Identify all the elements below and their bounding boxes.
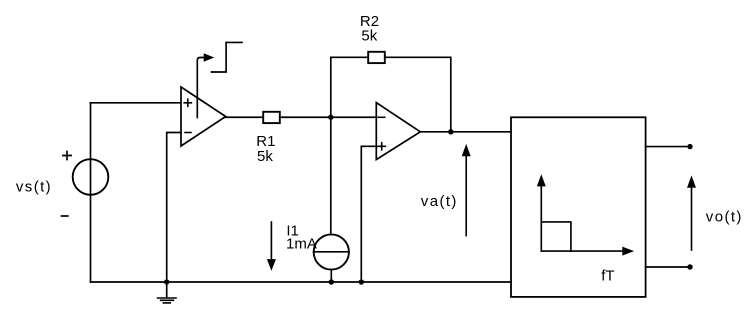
wire U2 non-inverting input down to rail — [361, 146, 376, 282]
wire op-amp U1 inverting input to ground node — [167, 133, 181, 283]
node B junction dot on U2 output — [448, 129, 453, 134]
wire U1 output to R1 — [225, 116, 263, 118]
current source I1 — [314, 234, 349, 269]
wire output top terminal — [646, 146, 690, 148]
terminal dot bottom — [687, 264, 692, 269]
op-amp U2 plus marker — [378, 143, 385, 150]
arrow vo(t) — [691, 187, 693, 250]
junction dot ground node — [164, 279, 169, 284]
wire vs(t) top to op-amp U1 non-inverting input — [91, 102, 182, 104]
svg-text:5k: 5k — [257, 148, 273, 165]
op-amp U2 minus marker — [378, 116, 384, 118]
terminal dot top — [687, 144, 692, 149]
op-amp U1 plus marker — [184, 99, 191, 106]
wire feedback right — [386, 57, 451, 132]
junction dot U2 plus wire on rail — [359, 279, 364, 284]
svg-text:vs(t): vs(t) — [16, 178, 52, 195]
voltage source VS vs(t) — [73, 159, 109, 195]
arrow va(t) — [465, 155, 467, 235]
svg-text:fT: fT — [601, 268, 614, 285]
op-amp U1 — [181, 87, 226, 146]
annotation arrow from U1 output — [197, 58, 204, 118]
wire R1 to op-amp U2 inverting input — [280, 116, 377, 118]
label - of source — [62, 215, 68, 217]
current direction arrow I1 — [270, 222, 272, 260]
resistor R1 — [263, 112, 280, 123]
graph step response curve — [541, 222, 571, 251]
resistor R2 — [368, 52, 385, 63]
wire bottom rail — [91, 281, 512, 283]
block fT box — [511, 117, 646, 297]
wire current source bottom to rail — [330, 270, 332, 282]
wire output bottom terminal — [646, 266, 690, 268]
wire vs(t) left branch vertical — [90, 103, 92, 282]
graph x-axis — [541, 250, 623, 252]
wire node vertical (feedback / current source) — [330, 57, 332, 234]
svg-text:1mA: 1mA — [286, 235, 317, 252]
svg-text:5k: 5k — [361, 27, 377, 44]
wire feedback left horizontal — [331, 56, 368, 58]
graph y-axis — [540, 185, 542, 251]
svg-text:va(t): va(t) — [421, 193, 458, 210]
label + of source — [63, 151, 71, 159]
wire U2 output to block — [420, 131, 511, 133]
svg-text:vo(t): vo(t) — [706, 208, 743, 225]
node A junction dot — [328, 115, 333, 120]
ground — [166, 282, 168, 297]
annotation step waveform symbol — [212, 42, 243, 72]
op-amp U2 — [376, 103, 420, 160]
junction dot current source on rail — [329, 279, 334, 284]
op-amp U1 minus marker — [185, 132, 191, 134]
